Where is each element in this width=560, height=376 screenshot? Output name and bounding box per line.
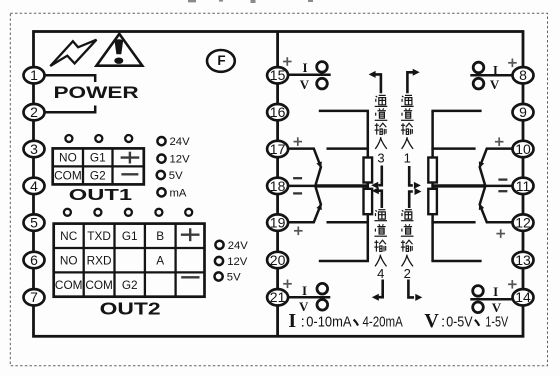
svg-text:G2: G2 <box>90 169 106 183</box>
svg-text:COM: COM <box>54 169 82 183</box>
label 通道输入2 <box>401 210 414 281</box>
svg-text:19: 19 <box>270 215 286 231</box>
terminals right column <box>513 67 534 305</box>
resistor R-ch2 <box>428 189 437 214</box>
svg-text:V: V <box>424 310 439 332</box>
wire terminal18 segment <box>288 185 316 188</box>
svg-text:12: 12 <box>515 215 531 231</box>
I ring at 15 <box>317 62 328 73</box>
resistor R-ch1 <box>428 158 437 183</box>
svg-text:16: 16 <box>270 104 286 120</box>
left channel bus wire <box>367 111 370 261</box>
wire from terminal 10 with twist arrow <box>480 149 513 186</box>
label 通道输入3 <box>375 95 388 165</box>
plus label at 21 <box>283 280 292 289</box>
wire terminal16 level <box>319 110 369 113</box>
svg-text:5V: 5V <box>227 272 241 284</box>
wire terminal17 to bus <box>327 147 370 150</box>
label 通道输入1 <box>401 95 414 165</box>
center divider wire <box>276 32 279 337</box>
svg-text:POWER: POWER <box>54 83 139 102</box>
wire terminal12 to bus <box>431 221 475 224</box>
svg-text:24V: 24V <box>170 136 191 148</box>
OUT2 screw terminals <box>64 209 192 216</box>
wire from terminal 19 with twist arrow <box>288 186 321 222</box>
svg-text:3: 3 <box>30 141 38 157</box>
plus label at 8 <box>508 59 517 68</box>
top cropped text remnants <box>188 0 313 3</box>
OUT2 plus symbol <box>181 228 200 241</box>
svg-text:4: 4 <box>377 266 384 281</box>
wire junction to bus thick <box>315 184 369 187</box>
svg-text:2: 2 <box>30 104 38 120</box>
right channel bus wire <box>431 111 434 261</box>
svg-text:1-5V: 1-5V <box>485 313 508 330</box>
svg-text:12V: 12V <box>170 154 191 166</box>
svg-text:V: V <box>300 77 310 92</box>
svg-text:OUT1: OUT1 <box>69 187 133 204</box>
terminal 15 I/V selector line <box>288 73 331 76</box>
svg-text:NO: NO <box>60 254 78 268</box>
svg-text:4: 4 <box>30 178 38 194</box>
svg-text:1: 1 <box>404 150 411 165</box>
channel 2 exit arrow <box>408 280 414 298</box>
terminal 21 I/V selector line <box>288 296 330 299</box>
svg-text:V: V <box>490 77 500 92</box>
OUT1 minus symbol <box>121 173 138 175</box>
svg-text:7: 7 <box>30 289 38 305</box>
svg-text:I: I <box>493 62 498 77</box>
channel 4 junction arrow <box>378 191 382 208</box>
wire from terminal 12 with twist arrow <box>480 186 513 222</box>
warning triangle <box>96 34 142 66</box>
output option indicators group 2 <box>215 241 224 281</box>
svg-text:13: 13 <box>515 252 531 268</box>
resistor R-ch3 <box>364 158 373 183</box>
channel 4 exit arrow <box>379 280 383 298</box>
V ring at 8 <box>473 78 484 89</box>
F symbol <box>207 50 235 72</box>
svg-text:9: 9 <box>519 104 527 120</box>
svg-text:6: 6 <box>30 252 38 268</box>
svg-text:A: A <box>156 254 164 268</box>
minus labels at 18 <box>293 177 302 179</box>
OUT1 screw terminals <box>65 135 132 142</box>
V ring at 21 <box>317 300 328 311</box>
OUT2 minus symbol <box>181 276 199 278</box>
svg-text:17: 17 <box>270 141 286 157</box>
wire terminal9 level <box>431 110 481 113</box>
minus labels at 11 <box>498 178 507 180</box>
wire from terminal 17 with twist arrow <box>288 149 321 186</box>
svg-text:0-10mA: 0-10mA <box>306 313 351 330</box>
plus label at 12 <box>496 229 505 238</box>
svg-text:5: 5 <box>30 215 38 231</box>
channel 1 junction arrow <box>409 166 413 185</box>
svg-text:18: 18 <box>270 178 286 194</box>
channel 3 exit arrow <box>375 74 381 93</box>
wire terminal20 level <box>319 260 369 263</box>
svg-text:24V: 24V <box>228 240 249 252</box>
plus label at 17 <box>294 137 303 146</box>
svg-text:G1: G1 <box>122 229 138 243</box>
svg-text:5V: 5V <box>169 170 183 182</box>
svg-text:12V: 12V <box>227 256 248 268</box>
svg-text:F: F <box>217 53 225 68</box>
wire power bracket bottom <box>45 106 96 113</box>
label 通道输入4 <box>374 210 387 281</box>
svg-text:3: 3 <box>377 150 384 165</box>
channel 1 exit arrow <box>407 72 413 93</box>
V ring at 15 <box>317 78 328 89</box>
I ring at 21 <box>317 283 328 294</box>
svg-text::: : <box>301 313 305 330</box>
svg-text:10: 10 <box>515 141 531 157</box>
terminals left column <box>24 67 45 305</box>
svg-text:21: 21 <box>270 289 286 305</box>
wire power bracket top <box>45 75 96 82</box>
lightning bolt icon <box>50 40 96 66</box>
svg-text:TXD: TXD <box>87 229 111 243</box>
svg-text:NC: NC <box>60 229 78 243</box>
svg-text:COM: COM <box>55 278 83 292</box>
I ring at 14 <box>473 286 484 297</box>
I ring at 8 <box>473 62 484 73</box>
svg-text:0-5V: 0-5V <box>446 313 472 330</box>
svg-text:I: I <box>493 284 498 299</box>
wire bus to junction thick <box>431 184 485 187</box>
inner device box <box>34 32 524 337</box>
wire terminal19 to bus <box>327 221 370 224</box>
svg-text:NO: NO <box>59 151 77 165</box>
svg-text:15: 15 <box>270 67 286 83</box>
svg-text:I: I <box>302 60 307 75</box>
svg-text:8: 8 <box>519 67 527 83</box>
svg-text:4-20mA: 4-20mA <box>363 313 403 330</box>
terminal 8 I/V selector line <box>470 74 512 77</box>
svg-text:20: 20 <box>270 252 286 268</box>
output option indicators group 1 <box>157 137 166 196</box>
svg-text:COM: COM <box>85 278 113 292</box>
resistor R-ch4 <box>364 189 373 214</box>
svg-text:G1: G1 <box>90 151 106 165</box>
svg-text:OUT2: OUT2 <box>100 299 161 319</box>
svg-text:mA: mA <box>170 188 187 200</box>
svg-text:I: I <box>288 310 296 332</box>
svg-text:14: 14 <box>515 289 531 305</box>
OUT2 terminal block <box>54 224 205 297</box>
OUT1 terminal block <box>53 148 144 184</box>
svg-text:2: 2 <box>404 266 411 281</box>
terminal 14 I/V selector line <box>470 298 513 301</box>
svg-text::: : <box>441 313 445 330</box>
OUT1 plus symbol <box>121 152 140 164</box>
plus label at 15 <box>283 57 292 66</box>
wire terminal10 to bus <box>431 147 475 150</box>
svg-text:B: B <box>156 229 164 243</box>
svg-text:G2: G2 <box>122 278 138 292</box>
svg-text:1: 1 <box>30 67 38 83</box>
exclamation mark <box>114 39 123 54</box>
terminals middle column <box>267 67 288 305</box>
channel 3 junction arrow <box>378 166 382 186</box>
wire terminal11 segment <box>485 185 513 188</box>
plus label at 19 <box>294 227 303 236</box>
svg-text:RXD: RXD <box>87 254 112 268</box>
V ring at 14 <box>473 302 484 313</box>
channel 2 junction arrow <box>409 192 413 209</box>
plus label at 10 <box>495 137 504 146</box>
plus label at 14 <box>508 280 517 289</box>
wire terminal13 level <box>431 260 481 263</box>
svg-text:I: I <box>302 283 307 298</box>
svg-text:V: V <box>299 299 309 314</box>
svg-text:11: 11 <box>516 178 531 194</box>
